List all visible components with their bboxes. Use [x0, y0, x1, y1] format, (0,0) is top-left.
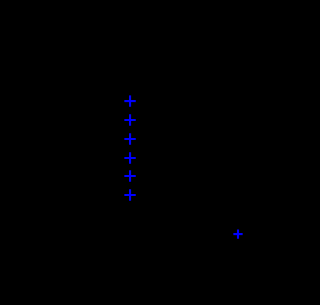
data point 6 (+ marker)	[124, 189, 135, 200]
data point 7 (small + marker)	[233, 229, 242, 238]
data point 2 (+ marker)	[124, 114, 135, 125]
data point 4 (+ marker)	[124, 152, 135, 163]
data point 5 (+ marker)	[124, 170, 135, 181]
data point 1 (+ marker)	[124, 95, 135, 106]
data point 3 (+ marker)	[124, 133, 135, 144]
